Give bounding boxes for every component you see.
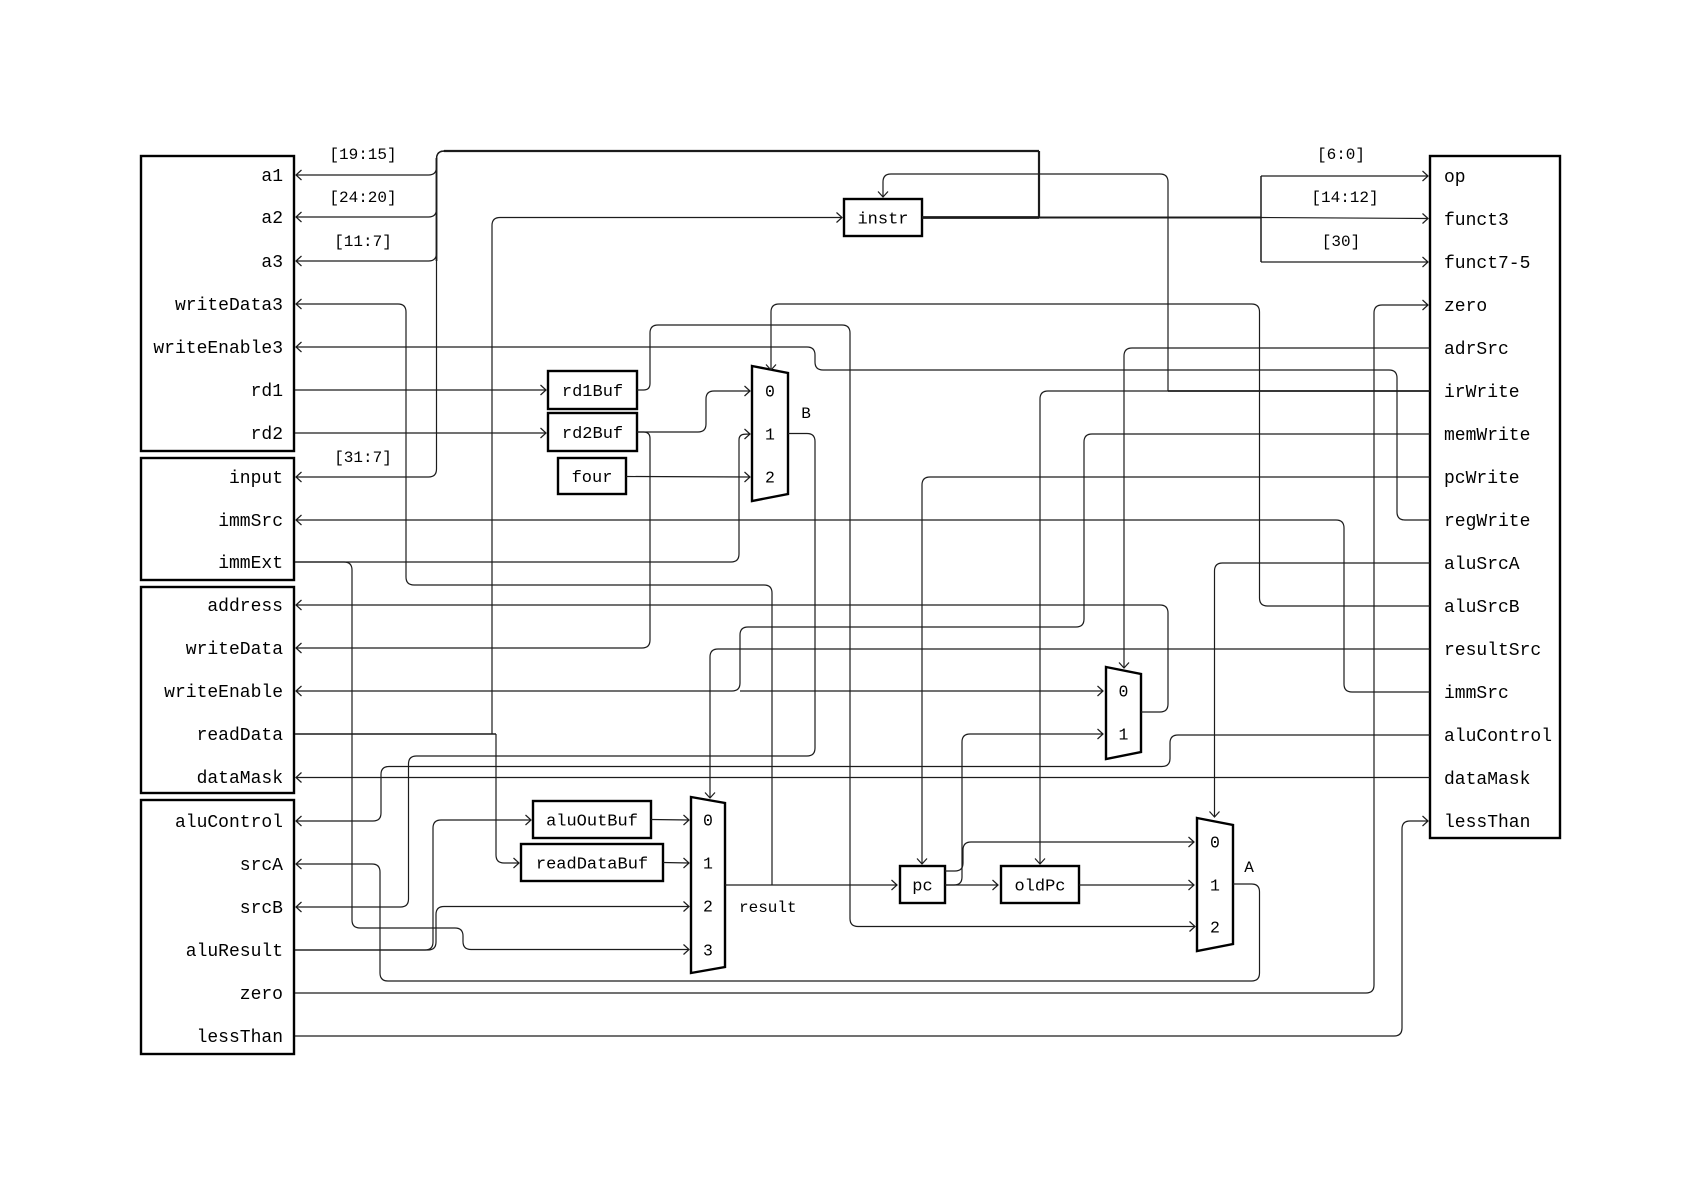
svg-text:aluSrcA: aluSrcA (1444, 555, 1520, 575)
svg-text:lessThan: lessThan (1444, 813, 1530, 833)
svg-text:adrSrc: adrSrc (1444, 340, 1509, 360)
svg-text:aluResult: aluResult (186, 942, 283, 962)
wire rd2Buf to memory writeData (296, 432, 650, 648)
svg-text:[30]: [30] (1322, 233, 1360, 251)
svg-text:aluControl: aluControl (175, 813, 283, 833)
svg-text:writeEnable: writeEnable (164, 683, 283, 703)
wire aluControl to alu (296, 735, 1430, 821)
svg-text:[24:20]: [24:20] (329, 189, 396, 207)
wire four to B mux 2 (626, 476, 750, 479)
register instr (844, 199, 922, 236)
wire adrSrc to Adr mux sel (1124, 348, 1430, 668)
svg-text:0: 0 (1119, 683, 1129, 702)
register oldPc (1001, 866, 1079, 903)
memory box (141, 587, 294, 793)
wire alu zero to control (295, 305, 1428, 993)
label slice 19:15 (321, 142, 406, 164)
svg-text:result: result (739, 899, 797, 917)
svg-text:1: 1 (703, 855, 713, 874)
svg-text:dataMask: dataMask (1444, 770, 1530, 790)
svg-text:a2: a2 (261, 209, 283, 229)
wire oldPc to A mux 1 (1079, 884, 1194, 886)
wire irWrite to instr (883, 174, 1168, 391)
register rd2Buf (548, 413, 637, 451)
svg-text:dataMask: dataMask (197, 769, 283, 789)
svg-text:zero: zero (240, 985, 283, 1005)
label slice 31:7 (327, 445, 400, 467)
wire immExt to result mux 3 (295, 562, 689, 950)
wire alu lessThan to control (295, 821, 1428, 1036)
svg-text:resultSrc: resultSrc (1444, 641, 1541, 661)
wire irWrite to oldPc (1040, 391, 1168, 864)
wire rd1Buf to A mux 2 (637, 325, 1195, 927)
wire immExt to B mux 1 (295, 434, 750, 562)
wire dataMask to memory (296, 777, 1430, 779)
wire memWrite fork to Adr mux 0 (740, 690, 1103, 692)
svg-text:writeEnable3: writeEnable3 (153, 339, 283, 359)
svg-text:funct7-5: funct7-5 (1444, 254, 1530, 274)
wire memWrite to writeEnable (296, 434, 1430, 691)
svg-text:four: four (572, 469, 613, 488)
svg-text:2: 2 (765, 469, 775, 488)
register aluOutBuf (533, 801, 651, 838)
wire instr bus out (thick) (922, 216, 1039, 219)
svg-text:0: 0 (703, 812, 713, 831)
svg-text:zero: zero (1444, 297, 1487, 317)
mux B (752, 366, 788, 501)
wire result to pc (725, 884, 897, 886)
svg-text:instr: instr (857, 210, 908, 229)
svg-text:writeData: writeData (186, 640, 283, 660)
svg-text:1: 1 (765, 426, 775, 445)
wire pcWrite to pc (922, 477, 1430, 864)
svg-text:0: 0 (1210, 834, 1220, 853)
register file box (141, 156, 294, 451)
svg-text:irWrite: irWrite (1444, 383, 1520, 403)
svg-text:writeData3: writeData3 (175, 296, 283, 316)
svg-text:funct3: funct3 (1444, 211, 1509, 231)
wire [6:0] riser x1261 (1260, 176, 1262, 218)
mux A (1197, 818, 1233, 951)
wire instr bus riser x1039 (1038, 151, 1040, 218)
svg-text:immSrc: immSrc (218, 512, 283, 532)
wire [30] to funct7-5 (1261, 261, 1428, 263)
svg-text:readDataBuf: readDataBuf (536, 855, 648, 874)
svg-text:a3: a3 (261, 253, 283, 273)
wire A mux out to srcA (296, 864, 1260, 981)
wire pc to Adr mux 1 (945, 734, 1103, 885)
wire [11:7] to a3 (296, 151, 460, 261)
svg-text:op: op (1444, 168, 1466, 188)
label slice 30 (1316, 229, 1366, 251)
wire rd2 to rd2Buf (295, 432, 546, 434)
wire [6:0] to op (1261, 175, 1428, 177)
wire rd2Buf to B mux 0 (637, 391, 750, 432)
label net result (737, 895, 810, 917)
svg-text:immExt: immExt (218, 554, 283, 574)
wire [14:12] to funct3 (1261, 218, 1428, 219)
svg-text:[19:15]: [19:15] (329, 146, 396, 164)
register pc (900, 866, 945, 903)
svg-text:1: 1 (1119, 726, 1129, 745)
register rd1Buf (548, 371, 637, 409)
svg-text:immSrc: immSrc (1444, 684, 1509, 704)
svg-text:aluSrcB: aluSrcB (1444, 598, 1520, 618)
wire readData shared (295, 733, 496, 735)
svg-text:readData: readData (197, 726, 284, 746)
label net A (1241, 855, 1257, 877)
wire pc to oldPc (945, 884, 998, 886)
wire readData to instr (492, 218, 842, 735)
svg-text:rd1Buf: rd1Buf (562, 383, 623, 402)
wire aluResult to aluOutBuf (295, 820, 531, 950)
svg-text:regWrite: regWrite (1444, 512, 1530, 532)
mux Adr (1106, 667, 1141, 759)
svg-text:aluControl: aluControl (1444, 727, 1552, 747)
svg-text:srcA: srcA (240, 856, 283, 876)
svg-text:B: B (801, 405, 811, 423)
svg-text:A: A (1244, 859, 1254, 877)
svg-text:lessThan: lessThan (197, 1028, 283, 1048)
wire readDataBuf to result mux 1 (663, 862, 689, 865)
svg-text:rd1: rd1 (251, 382, 283, 402)
wire resultSrc to result mux sel (710, 649, 1430, 798)
svg-text:aluOutBuf: aluOutBuf (546, 812, 638, 831)
svg-text:2: 2 (703, 898, 713, 917)
label slice 11:7 (327, 229, 400, 251)
svg-text:[14:12]: [14:12] (1311, 189, 1378, 207)
register readDataBuf (521, 844, 663, 881)
svg-text:[31:7]: [31:7] (334, 449, 392, 467)
register four (558, 458, 626, 494)
mux result (691, 797, 725, 973)
svg-text:pc: pc (912, 877, 932, 896)
svg-text:3: 3 (703, 942, 713, 961)
wire instr top channel y151 (444, 150, 1039, 152)
extend unit box (141, 458, 294, 580)
svg-text:rd2: rd2 (251, 425, 283, 445)
wire aluSrcB to B mux sel (771, 304, 1430, 606)
wire irWrite shared (1168, 390, 1430, 392)
wire pc to A mux 0 (945, 842, 1194, 871)
wire [30] riser (1260, 218, 1262, 263)
svg-text:pcWrite: pcWrite (1444, 469, 1520, 489)
svg-text:oldPc: oldPc (1014, 877, 1065, 896)
label slice 24:20 (321, 185, 406, 207)
wire [19:15] to a1 (296, 151, 460, 175)
wire aluResult to result mux 2 (295, 907, 689, 951)
wire aluOutBuf to result mux 0 (651, 819, 689, 822)
control unit box (1430, 156, 1560, 838)
svg-text:2: 2 (1210, 919, 1220, 938)
wire regWrite to writeEnable3 (296, 347, 1430, 520)
label slice 6:0 (1310, 142, 1372, 164)
wire result to writeData3 (296, 304, 772, 885)
svg-text:[11:7]: [11:7] (334, 233, 392, 251)
alu box (141, 800, 294, 1054)
svg-text:rd2Buf: rd2Buf (562, 425, 623, 444)
svg-text:1: 1 (1210, 877, 1220, 896)
wire rd1 to rd1Buf (295, 389, 546, 391)
svg-text:input: input (229, 469, 283, 489)
wire instr bus to control fields (1039, 217, 1261, 219)
label net B (798, 401, 814, 423)
wire x436 riser emphasis (436, 158, 438, 261)
svg-text:[6:0]: [6:0] (1317, 146, 1365, 164)
wire Adr mux out to address (296, 605, 1168, 712)
wire aluSrcA to A mux sel (1215, 563, 1431, 817)
wire [24:20] to a2 (296, 151, 460, 217)
wire B mux out to srcB (296, 434, 815, 908)
wire [31:7] to extend input (296, 151, 460, 477)
svg-text:0: 0 (765, 383, 775, 402)
wire immSrc to extend (296, 520, 1430, 692)
svg-text:a1: a1 (261, 167, 283, 187)
svg-text:address: address (207, 597, 283, 617)
wire readData to readDataBuf (496, 734, 519, 863)
label slice 14:12 (1303, 185, 1388, 207)
svg-text:memWrite: memWrite (1444, 426, 1530, 446)
svg-text:srcB: srcB (240, 899, 283, 919)
